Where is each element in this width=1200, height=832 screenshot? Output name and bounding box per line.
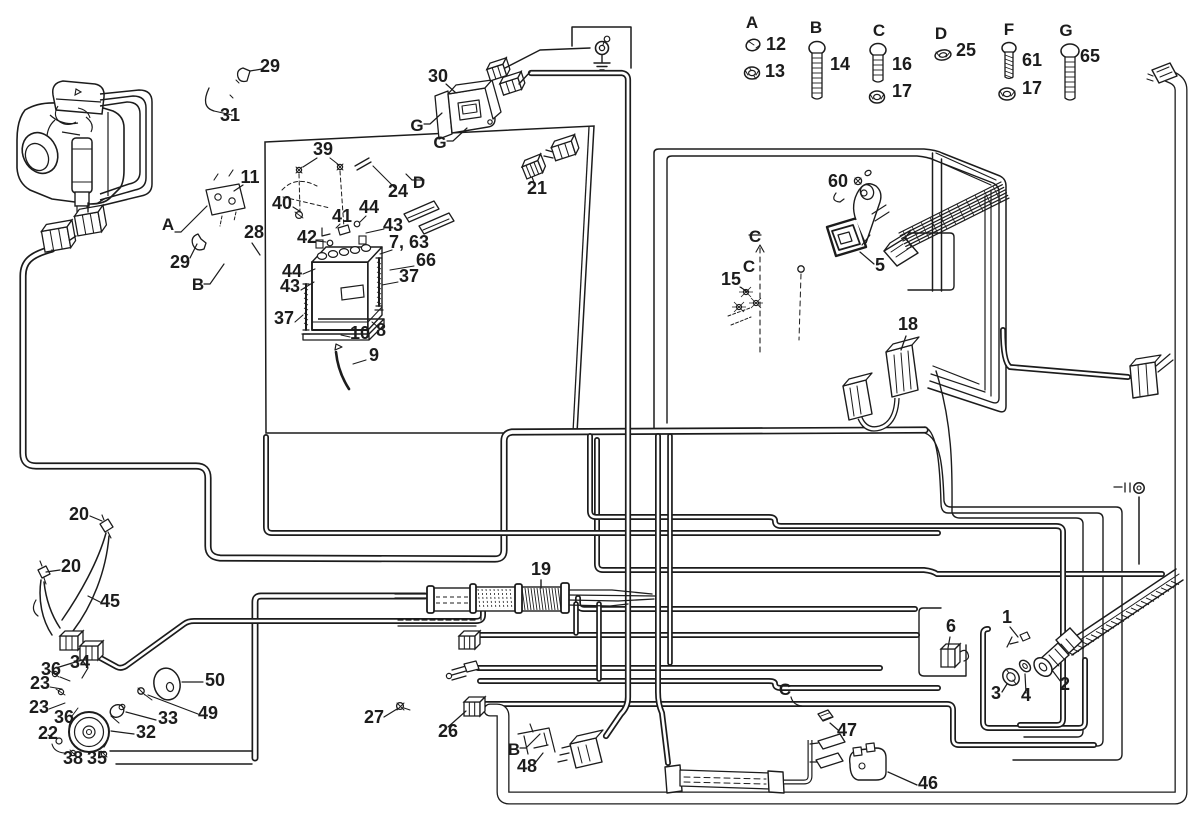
svg-text:29: 29: [260, 56, 280, 76]
svg-text:37: 37: [399, 266, 419, 286]
hidden wire under coil dashed: [398, 619, 478, 621]
svg-text:13: 13: [765, 61, 785, 81]
svg-text:C: C: [779, 680, 791, 699]
harness branch y=681: [480, 681, 938, 688]
leader 40: [293, 207, 301, 212]
svg-text:6: 6: [946, 616, 956, 636]
leader 21: [532, 177, 535, 185]
leader 8: [372, 322, 378, 327]
svg-text:21: 21: [527, 178, 547, 198]
wire from lower connector: [519, 72, 530, 84]
svg-text:42: 42: [297, 227, 317, 247]
leader 2: [1052, 670, 1061, 682]
svg-text:50: 50: [205, 670, 225, 690]
leader 20 upper: [90, 516, 102, 521]
harness branch y=571 from sheet vertical to right side: [597, 440, 1162, 574]
svg-text:49: 49: [198, 703, 218, 723]
key switch cable hatching: [1066, 581, 1179, 655]
connector 18 left block: [843, 373, 872, 420]
svg-text:17: 17: [1022, 78, 1042, 98]
svg-text:2: 2: [1060, 674, 1070, 694]
svg-text:C: C: [873, 21, 885, 40]
jumper wire of 18: [860, 398, 897, 429]
connector 18 right block: [886, 337, 919, 397]
harness branch y=704: [484, 704, 1094, 745]
leader 44 upper: [360, 216, 366, 222]
leader 47: [830, 723, 838, 730]
grommet screw right side: [1114, 483, 1144, 493]
clip nut 25: [934, 49, 951, 62]
grommet lead wire: [1138, 497, 1140, 564]
stacked sheet bottom slant edges: [931, 366, 985, 392]
bullet terminal 20 lower: [38, 561, 50, 584]
leader 66: [390, 266, 414, 270]
switch harness connector: [884, 230, 918, 266]
svg-text:1: 1: [1002, 607, 1012, 627]
svg-text:27: 27: [364, 707, 384, 727]
horn loop bottom wire upper: [110, 750, 252, 752]
leader 49: [148, 695, 198, 714]
leader 5: [860, 252, 874, 264]
leader 23 lower: [49, 703, 65, 709]
leader 43 upper: [366, 229, 384, 233]
ignition switch 5: [827, 183, 889, 256]
svg-text:60: 60: [828, 171, 848, 191]
harness branch y=531: [266, 437, 938, 533]
svg-text:37: 37: [274, 308, 294, 328]
svg-text:26: 26: [438, 721, 458, 741]
screw with dashed line right of 15: [798, 266, 804, 340]
svg-text:9: 9: [369, 345, 379, 365]
leader 9: [353, 360, 366, 364]
clip 12: [745, 37, 762, 52]
bracket 48: [518, 724, 555, 754]
nut 13: [745, 67, 760, 79]
screw 60: [854, 169, 872, 184]
leader 36 lower: [72, 708, 78, 716]
svg-text:32: 32: [136, 722, 156, 742]
harness branch y=635: [477, 632, 917, 638]
harness 45 branch wires: [33, 533, 109, 635]
leader 18: [901, 336, 906, 350]
leader 20 lower: [46, 570, 60, 572]
harness branch y=515 with vertical from sheet: [590, 436, 1063, 725]
stacked sheet inner verticals right: [985, 190, 991, 396]
spade connector upper: [818, 734, 845, 749]
leader 45: [88, 596, 100, 602]
connector prongs: [544, 150, 553, 158]
control box wire loop inner: [667, 156, 999, 423]
switch wire bundle ribbon: [899, 182, 1009, 249]
svg-text:17: 17: [892, 81, 912, 101]
svg-text:65: 65: [1080, 46, 1100, 66]
nut 17 under C: [870, 91, 885, 103]
wire loop K4: [936, 371, 1083, 737]
svg-text:39: 39: [313, 139, 333, 159]
bracket 34 hardware: [50, 660, 88, 695]
screw 35: [101, 751, 107, 757]
leader 23 upper: [50, 687, 62, 689]
screw 61: [1002, 43, 1016, 79]
wire 31 dashed arc: [205, 88, 214, 111]
leader 50: [182, 681, 203, 683]
leader 41: [336, 224, 340, 228]
connector pair top center: [485, 58, 511, 81]
big loop bottom and right edge: [490, 74, 1181, 798]
mounting sheet panel (battery bracket plate): [265, 126, 594, 433]
main harness from engine down left side and across to right: [23, 249, 925, 559]
horn harness loop via coil feed: [255, 596, 425, 758]
leader C 47: [791, 697, 802, 706]
leader 37 right: [382, 282, 398, 285]
connector at left end y=706: [464, 697, 485, 716]
svg-text:12: 12: [766, 34, 786, 54]
leader 32: [111, 731, 134, 734]
svg-text:31: 31: [220, 105, 240, 125]
leader 42: [317, 241, 326, 242]
nut 17 under F: [999, 88, 1015, 100]
svg-text:23: 23: [29, 697, 49, 717]
svg-text:44: 44: [359, 197, 379, 217]
top bracket outline: [572, 27, 631, 68]
svg-text:18: 18: [898, 314, 918, 334]
leader 44 lower: [303, 269, 315, 274]
svg-text:8: 8: [376, 320, 386, 340]
svg-text:F: F: [1004, 20, 1014, 39]
bracket 11 plate: [206, 170, 245, 226]
leader 36 upper: [60, 677, 70, 681]
connector 6: [941, 644, 969, 667]
branch from control box to right connector: [1003, 330, 1128, 377]
connector mid right (to control box): [1130, 354, 1173, 398]
leader 15: [740, 287, 748, 292]
leader 1: [1010, 627, 1018, 637]
wire from tube to spades: [784, 740, 810, 782]
speckles near 31: [230, 80, 239, 98]
svg-text:29: 29: [170, 252, 190, 272]
leader 37 left: [295, 315, 303, 322]
screw 38: [70, 750, 76, 756]
svg-text:A: A: [162, 215, 174, 234]
leader 7 63: [380, 250, 392, 254]
svg-text:40: 40: [272, 193, 292, 213]
connector 21: [520, 154, 547, 179]
leader 10: [341, 335, 350, 337]
vertical wire beside control box left edge: [658, 436, 668, 763]
svg-text:16: 16: [892, 54, 912, 74]
CDI unit 30: [435, 80, 501, 139]
connector at left end y=635: [459, 631, 480, 649]
leader 6: [948, 637, 950, 648]
leader 43 lower: [301, 282, 314, 290]
svg-text:28: 28: [244, 222, 264, 242]
fitting 10: [335, 344, 342, 350]
leader 60 arrow: [834, 193, 844, 202]
svg-text:25: 25: [956, 40, 976, 60]
stacked sheet diagonal edges top-right: [930, 153, 996, 185]
wire loop around key switch: [983, 629, 1085, 728]
battery 7,63: [312, 236, 382, 330]
svg-text:7, 63: 7, 63: [389, 232, 429, 252]
short vertical wire x=576: [573, 604, 579, 633]
svg-text:A: A: [746, 13, 758, 32]
leaders 39: [303, 158, 339, 167]
terminal spades 43: [404, 201, 454, 234]
wire to ring terminal: [505, 48, 590, 68]
svg-text:46: 46: [918, 773, 938, 793]
bolt 16: [870, 44, 886, 83]
svg-text:5: 5: [875, 255, 885, 275]
svg-text:22: 22: [38, 723, 58, 743]
bullet terminal 20 upper: [100, 515, 113, 538]
svg-text:41: 41: [332, 206, 352, 226]
vertical wire x=670: [667, 436, 673, 663]
battery vent tube 9: [336, 352, 349, 389]
tube right cap: [768, 771, 784, 793]
clamp 29 (top): [238, 68, 250, 82]
leader 48: [535, 753, 543, 763]
svg-text:C: C: [743, 257, 755, 276]
engine harness connector lower: [40, 220, 76, 252]
horn loop bottom wire lower: [116, 763, 252, 765]
coil input wire: [395, 594, 428, 598]
clamp 47: [818, 710, 833, 721]
washer 4: [1017, 658, 1032, 674]
svg-text:48: 48: [517, 756, 537, 776]
leader 4: [1025, 674, 1026, 693]
key switch 2: [1030, 628, 1082, 680]
leader 46: [888, 772, 917, 785]
connector top right corner: [1147, 63, 1177, 83]
bolt 49: [138, 688, 152, 700]
svg-text:G: G: [433, 133, 446, 152]
engine wiring loop bundle: [100, 90, 152, 206]
svg-text:20: 20: [61, 556, 81, 576]
battery bolt 37 left: [302, 284, 310, 334]
harness branch y=609 to relay box: [578, 598, 915, 609]
svg-text:23: 23: [30, 673, 50, 693]
leader 27: [384, 709, 397, 717]
svg-text:G: G: [410, 116, 423, 135]
svg-text:B: B: [192, 275, 204, 294]
spade terminals at left end y=672: [446, 661, 479, 680]
svg-text:43: 43: [280, 276, 300, 296]
svg-text:B: B: [810, 18, 822, 37]
svg-text:D: D: [413, 173, 425, 192]
leader 19: [540, 580, 542, 588]
svg-text:14: 14: [830, 54, 850, 74]
leader 29 top: [250, 69, 262, 71]
ring terminal: [596, 36, 610, 54]
svg-text:34: 34: [70, 652, 90, 672]
wire engine to connectors: [52, 203, 88, 252]
svg-text:30: 30: [428, 66, 448, 86]
svg-text:15: 15: [721, 269, 741, 289]
hardware cluster 39-44 above battery: [282, 164, 360, 246]
cap 33: [108, 702, 126, 723]
leader 24: [373, 166, 395, 188]
leader 3: [1002, 684, 1007, 692]
horn 32: [69, 712, 109, 752]
svg-text:D: D: [935, 24, 947, 43]
engine harness connector upper: [73, 205, 107, 236]
engine powerhead assembly: [16, 81, 124, 215]
clamp 29 lower: [192, 234, 206, 250]
inner loop right edge verticals x=932,941: [933, 153, 942, 291]
leader 30: [446, 84, 456, 93]
washer 50: [151, 666, 183, 703]
svg-text:45: 45: [100, 591, 120, 611]
screw 27: [397, 703, 410, 710]
ignition coil 19: [427, 583, 569, 613]
inner window corner of nested loop: [908, 233, 954, 290]
ground symbol: [594, 55, 610, 70]
harness branch y=668 to part 6 connector: [478, 665, 880, 671]
plug connector near B: [558, 730, 603, 768]
horn relay 46: [850, 743, 886, 780]
bracket corner under coil: [398, 612, 481, 626]
spade connector lower: [816, 753, 843, 768]
svg-text:3: 3: [991, 683, 1001, 703]
leader 22: [52, 744, 64, 753]
battery bolt 37 right: [375, 258, 383, 310]
svg-text:20: 20: [69, 504, 89, 524]
tube assembly left cap: [665, 765, 682, 793]
svg-text:47: 47: [837, 720, 857, 740]
leader 33: [126, 712, 156, 720]
bolt 14: [809, 42, 825, 100]
spade leads: [810, 743, 818, 762]
ignition feed pair from top center going down to tube: [531, 73, 628, 736]
nut 3: [999, 665, 1022, 688]
switch bundle hatch texture: [903, 186, 1001, 247]
key switch wire bundle diagonal: [1064, 569, 1183, 655]
leader 26: [448, 711, 466, 727]
svg-text:10: 10: [350, 323, 370, 343]
switch hardware 15: [728, 245, 764, 352]
svg-text:38: 38: [63, 748, 83, 768]
svg-text:35: 35: [87, 748, 107, 768]
battery tray 8: [303, 319, 384, 334]
coil output wires: [568, 590, 655, 606]
wire loop K2: [925, 427, 1103, 746]
svg-text:C: C: [749, 227, 761, 246]
svg-text:G: G: [1059, 21, 1072, 40]
connector 34 pair: [60, 631, 83, 650]
tube body: [680, 770, 770, 789]
svg-text:11: 11: [240, 167, 259, 187]
bolt 65: [1061, 44, 1079, 100]
wire loop K1 (outermost bottom-right): [925, 433, 1122, 760]
horn feed wire from connectors: [95, 612, 483, 668]
svg-text:19: 19: [531, 559, 551, 579]
lead wire 24: [355, 158, 371, 170]
clip 1: [1007, 632, 1030, 647]
connector at sheet top right: [550, 135, 581, 161]
washer 22: [48, 735, 62, 744]
svg-text:33: 33: [158, 708, 178, 728]
svg-text:61: 61: [1022, 50, 1042, 70]
short vertical wire x=599: [596, 604, 602, 679]
relay box outline around part 6: [919, 608, 966, 676]
control box wire loop outer: [654, 149, 1006, 429]
